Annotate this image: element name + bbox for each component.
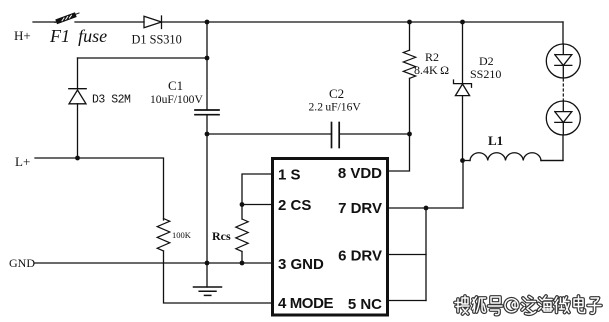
wire R2 bottom (409, 78, 411, 134)
wire Rcs bottom (241, 252, 243, 264)
svg-text:GND: GND (9, 256, 35, 270)
resistor Rcs (236, 219, 248, 251)
svg-text:C2: C2 (329, 86, 344, 101)
IC U1 box (273, 159, 388, 316)
wire 100K down to MODE wire (164, 251, 273, 303)
svg-text:SS210: SS210 (470, 67, 501, 81)
wire LED string top (562, 22, 564, 44)
svg-text:L1: L1 (488, 133, 503, 148)
svg-text:D2: D2 (479, 54, 494, 68)
node junction dot L+ / D3 (75, 156, 80, 161)
node junction dot gnd/C1 (205, 261, 210, 266)
LED DS1 (546, 44, 580, 78)
node junction dot C2 left (205, 132, 210, 137)
svg-text:Rcs: Rcs (212, 229, 231, 243)
wire Rcs top (241, 205, 243, 220)
capacitor C1 (195, 110, 219, 115)
svg-text:D3 S2M: D3 S2M (92, 94, 131, 107)
wire D2 vertical top (462, 22, 464, 83)
svg-text:C1: C1 (168, 78, 183, 93)
diode D3 (69, 89, 86, 104)
wire fuse to D1 (75, 21, 144, 23)
svg-text:8 VDD: 8 VDD (338, 165, 382, 182)
wire GND rail (35, 262, 273, 264)
svg-text:4 MODE: 4 MODE (278, 295, 334, 312)
svg-text:7 DRV: 7 DRV (338, 200, 382, 217)
wire pin8 to R2/C2 node (388, 134, 410, 171)
resistor R2 (403, 50, 415, 78)
wire C1 vertical bottom (206, 115, 208, 263)
node junction dot top C1 (205, 20, 210, 25)
node junction dot D2/L1/pin7 (460, 158, 465, 163)
svg-text:3 GND: 3 GND (278, 256, 324, 273)
node junction dot top R2 (407, 20, 412, 25)
wire R2 top (409, 22, 411, 50)
ground symbol (194, 287, 222, 295)
svg-text:F1 fuse: F1 fuse (49, 26, 107, 46)
diode D1 (144, 16, 162, 29)
wire L+ rail (35, 158, 164, 220)
wire gnd stem (206, 263, 208, 287)
wire D2 vertical bottom (462, 96, 464, 161)
wire pin2 stub (242, 204, 273, 206)
wire pin5 stub (388, 300, 427, 302)
fuse F1 (55, 13, 79, 23)
resistor 100K (157, 219, 170, 251)
wire D3 branch horizontal (78, 57, 208, 59)
LED DS2 (546, 101, 580, 135)
node junction dot pin7 bus (424, 206, 429, 211)
node junction dot gnd/Rcs (240, 261, 245, 266)
svg-text:1 S: 1 S (278, 167, 301, 184)
svg-text:L+: L+ (15, 154, 30, 169)
node junction dot pin2/Rcs (240, 202, 245, 207)
node junction dot top D2 (460, 20, 465, 25)
node junction dot D3 top (205, 56, 210, 61)
capacitor C2 (332, 123, 340, 148)
node junction dot C2 right (407, 132, 412, 137)
wire C1 vertical top (206, 22, 208, 110)
wire D3 vertical lower (77, 104, 79, 158)
diode D2 schottky (454, 80, 472, 96)
wire pin7 riser (462, 161, 464, 209)
wire pin1 to pin2 (242, 174, 273, 205)
svg-text:6 DRV: 6 DRV (338, 248, 382, 265)
wire pin6 stub (388, 254, 427, 256)
wire top rail D1 to LED corner (162, 21, 564, 23)
svg-text:10uF/100V: 10uF/100V (150, 93, 203, 106)
wire D3 vertical upper (77, 58, 79, 89)
wire pin7 to D2/L1 node (388, 207, 464, 209)
inductor L1 (463, 153, 564, 161)
wire bus pins 7-6-5 (425, 208, 427, 301)
wire LED string bottom (541, 135, 563, 161)
svg-text:D1 SS310: D1 SS310 (132, 33, 182, 47)
svg-text:R2: R2 (425, 50, 439, 64)
svg-text:2 CS: 2 CS (278, 197, 311, 214)
svg-text:2.2 uF/16V: 2.2 uF/16V (309, 101, 362, 114)
svg-text:H+: H+ (14, 28, 31, 43)
svg-text:8.4K Ω: 8.4K Ω (414, 63, 449, 77)
wire C2 rail (207, 133, 410, 135)
svg-text:100K: 100K (172, 230, 192, 240)
wire top rail left segment (33, 21, 58, 23)
svg-text:5 NC: 5 NC (348, 296, 382, 313)
watermark 搜狐号@泛海微电子 (455, 296, 601, 315)
wire dotted between LEDs (562, 79, 564, 100)
